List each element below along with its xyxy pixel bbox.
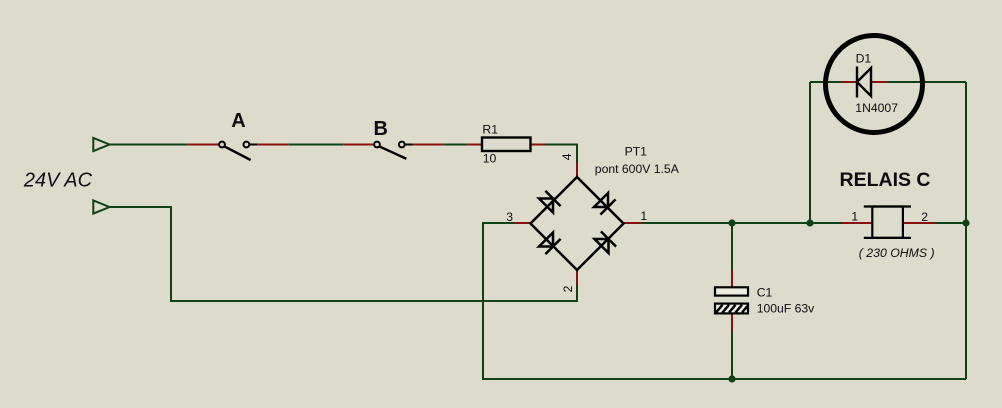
svg-text:RELAIS C: RELAIS C [840,169,931,191]
svg-text:1: 1 [640,209,647,223]
svg-text:100uF 63v: 100uF 63v [757,302,815,316]
svg-text:pont 600V 1.5A: pont 600V 1.5A [595,162,680,176]
svg-text:1: 1 [851,209,858,223]
svg-text:1N4007: 1N4007 [855,101,898,115]
svg-text:2: 2 [921,210,928,224]
svg-text:B: B [374,118,388,140]
svg-text:10: 10 [483,151,497,165]
svg-text:A: A [231,110,245,132]
svg-text:R1: R1 [482,123,498,137]
svg-text:4: 4 [560,153,574,160]
svg-text:3: 3 [506,210,513,224]
svg-text:( 230 OHMS ): ( 230 OHMS ) [859,246,935,260]
svg-text:D1: D1 [856,52,872,66]
svg-text:2: 2 [561,285,575,292]
svg-text:C1: C1 [757,286,773,300]
svg-text:PT1: PT1 [625,145,648,159]
svg-text:24V AC: 24V AC [23,169,93,191]
